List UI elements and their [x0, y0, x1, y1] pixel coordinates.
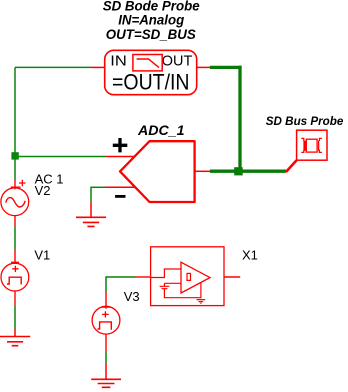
pin OUT of bode probe: [197, 66, 210, 68]
bus wire SD_BUS vertical: [238, 66, 241, 173]
pin - of V2: [14, 215, 16, 227]
junction bus node: [234, 167, 243, 175]
ground GND3 pin: [105, 363, 107, 379]
svg-text:SD Bode Probe: SD Bode Probe: [103, 0, 200, 14]
svg-text:OUT: OUT: [162, 53, 193, 70]
svg-text:IN: IN: [110, 53, 127, 70]
wire junction down to V2: [14, 160, 16, 180]
pin + of V2: [11, 180, 21, 190]
pin - of V1: [14, 291, 16, 305]
wire V3 to ground: [105, 351, 107, 363]
ground GND2 symbol: [0, 337, 30, 346]
ground GND3 symbol: [91, 379, 121, 387]
svg-text:X1: X1: [242, 248, 258, 263]
bus wire SD_BUS top horizontal: [210, 66, 242, 69]
pulse source V3 body: [92, 306, 120, 334]
pin IN of bode probe: [92, 66, 105, 68]
wire junction to ADC + input: [15, 156, 106, 158]
svg-text:V2: V2: [35, 183, 51, 198]
pulse source V1 body: [1, 263, 29, 291]
svg-text:OUT=SD_BUS: OUT=SD_BUS: [106, 27, 196, 42]
bus probe connection diagonal: [286, 160, 297, 172]
pin + input of ADC: [106, 156, 134, 158]
wire V1 to ground: [14, 305, 16, 328]
plus marker of V2: [19, 180, 26, 187]
svg-text:ADC_1: ADC_1: [137, 123, 185, 138]
AC source V2 body: [1, 188, 29, 216]
svg-text:V1: V1: [34, 248, 50, 263]
plus marker of ADC: [113, 138, 128, 152]
bus wire SD_BUS bottom horizontal: [210, 170, 286, 173]
pin + of V3: [102, 292, 111, 309]
ADC U1 body pentagon: [120, 141, 195, 202]
wire V2 to V1: [14, 227, 16, 250]
wire V3 to X1 horizontal: [106, 276, 136, 278]
wire - input to ground: [90, 187, 92, 203]
wire - input horizontal: [91, 186, 105, 188]
pin + of V1: [11, 250, 19, 265]
wire net IN: junction to bode probe (vertical): [14, 67, 16, 156]
probe XBP1 SD Bode Probe body: [105, 50, 197, 94]
pin output of ADC: [195, 170, 210, 172]
ground GND1 symbol: [76, 217, 106, 226]
svg-text:=OUT/IN: =OUT/IN: [112, 70, 190, 95]
junction node at V2/+input: [11, 152, 18, 159]
svg-text:IN=Analog: IN=Analog: [118, 13, 185, 28]
ground GND2 pin: [14, 329, 16, 337]
svg-text:V3: V3: [124, 289, 140, 304]
wire net IN: horizontal to bode probe IN pin: [15, 66, 92, 68]
wire V3 vertical: [105, 276, 107, 292]
ground GND1 pin: [90, 202, 92, 217]
minus marker of ADC: [115, 195, 125, 198]
pin - of V3: [105, 334, 107, 351]
pin - input of ADC: [105, 186, 135, 188]
subcircuit X1 body: [151, 247, 224, 306]
pin output of X1: [224, 276, 240, 278]
pin input of X1: [136, 276, 151, 278]
svg-text:SD Bus Probe: SD Bus Probe: [266, 114, 344, 128]
probe XSP1 SD Bus Probe body: [297, 130, 327, 160]
